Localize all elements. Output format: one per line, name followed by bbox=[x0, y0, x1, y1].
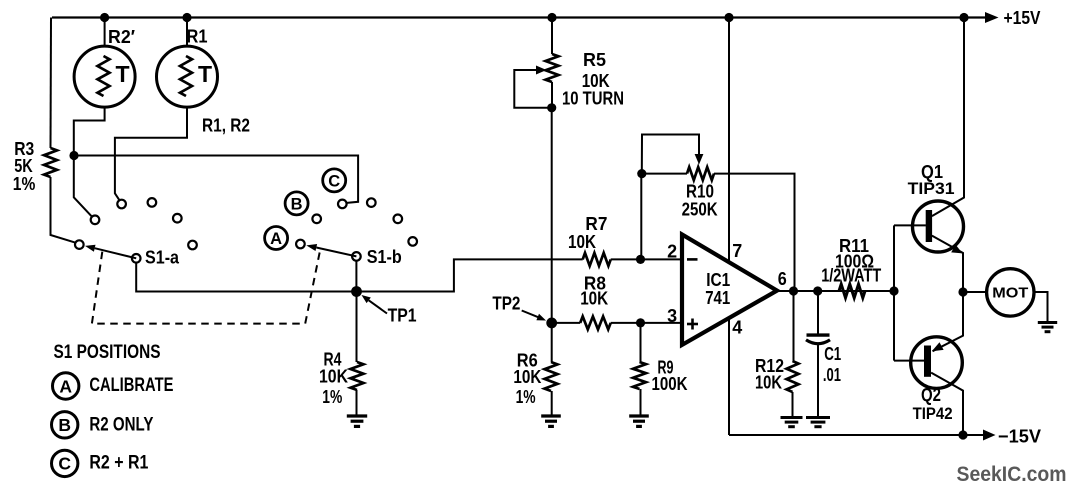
svg-text:1/2WATT: 1/2WATT bbox=[821, 265, 882, 286]
node legend circle A bbox=[52, 373, 78, 399]
ground C1 bbox=[806, 416, 830, 419]
node output junction C1 bbox=[813, 286, 822, 295]
svg-text:1%: 1% bbox=[516, 386, 536, 407]
svg-text:Q2: Q2 bbox=[921, 384, 941, 405]
wire S1-b pole down to TP1 bbox=[355, 261, 357, 292]
resistor R8 bbox=[552, 273, 682, 330]
potentiometer R10 bbox=[637, 135, 794, 292]
svg-text:−15V: −15V bbox=[998, 426, 1042, 447]
potentiometer R5 bbox=[514, 18, 624, 113]
svg-text:250K: 250K bbox=[682, 199, 719, 220]
wire bridge junction to S1-b contact C bbox=[74, 156, 358, 203]
thermistor R1 bbox=[115, 18, 218, 201]
svg-text:741: 741 bbox=[705, 287, 730, 308]
node junction top rail R1 bbox=[182, 13, 191, 22]
resistor R4 bbox=[319, 292, 364, 417]
wire left rail from +15V to R3 bbox=[50, 18, 53, 149]
svg-text:2: 2 bbox=[667, 241, 677, 262]
node motor junction bbox=[958, 287, 967, 296]
wire op-amp output bbox=[777, 290, 894, 292]
ground R6 bbox=[541, 414, 561, 417]
wire +15V top rail bbox=[52, 16, 985, 18]
svg-text:A: A bbox=[59, 376, 72, 396]
transistor Q1 TIP31 bbox=[894, 18, 964, 292]
wire R10 junction down to pin2 node bbox=[640, 174, 642, 260]
resistor R11 bbox=[821, 235, 882, 298]
node legend circle C bbox=[51, 450, 77, 476]
svg-text:T: T bbox=[198, 61, 212, 87]
node junction R2/R3 bridge bbox=[69, 151, 78, 160]
wire dashed gang link S1 bbox=[92, 252, 320, 324]
svg-text:10K: 10K bbox=[568, 231, 597, 252]
ground R4 bbox=[347, 414, 367, 417]
wire pin7 to +15V bbox=[728, 18, 730, 264]
svg-text:B: B bbox=[58, 415, 71, 435]
svg-text:R5: R5 bbox=[583, 49, 606, 70]
svg-text:10 TURN: 10 TURN bbox=[562, 88, 624, 109]
svg-text:1%: 1% bbox=[13, 173, 36, 194]
svg-text:10K: 10K bbox=[755, 372, 782, 393]
svg-text:100K: 100K bbox=[652, 373, 689, 394]
node circled C position label bbox=[323, 169, 346, 192]
svg-text:10K: 10K bbox=[319, 366, 349, 387]
svg-text:R2′: R2′ bbox=[108, 26, 136, 47]
node junction top rail pin7 bbox=[724, 13, 733, 22]
svg-text:TP1: TP1 bbox=[388, 305, 417, 326]
node pin3 junction bbox=[636, 318, 645, 327]
svg-text:TIP31: TIP31 bbox=[908, 179, 955, 198]
wire pin4 to -15V bbox=[728, 318, 730, 435]
wire R5 down to TP2 bbox=[551, 108, 553, 323]
svg-text:TIP42: TIP42 bbox=[913, 404, 953, 423]
node junction top rail Q1 bbox=[959, 13, 968, 22]
resistor R12 bbox=[755, 291, 799, 418]
svg-text:A: A bbox=[270, 230, 282, 248]
svg-text:4: 4 bbox=[732, 317, 743, 338]
node TP2 bbox=[546, 318, 557, 329]
resistor R7 bbox=[568, 213, 682, 266]
node output junction R12 bbox=[789, 286, 798, 295]
node base drive junction bbox=[889, 286, 898, 295]
svg-text:SeekIC.com: SeekIC.com bbox=[957, 462, 1067, 486]
node +15V arrow bbox=[985, 12, 999, 23]
svg-text:+15V: +15V bbox=[1004, 7, 1042, 28]
svg-text:R2 ONLY: R2 ONLY bbox=[89, 415, 153, 436]
svg-text:R1, R2: R1, R2 bbox=[202, 115, 250, 136]
op-amp IC1 741 bbox=[667, 234, 787, 345]
switch S1-b bbox=[296, 198, 417, 267]
ground R12 bbox=[781, 416, 803, 419]
svg-text:R1: R1 bbox=[187, 26, 208, 47]
svg-text:C1: C1 bbox=[824, 343, 841, 364]
node junction top rail R5 bbox=[547, 13, 556, 22]
wire -15V bottom rail bbox=[729, 434, 984, 436]
svg-text:C: C bbox=[58, 454, 71, 474]
wire S1-a pole down to bus bbox=[136, 263, 356, 292]
resistor R3 bbox=[13, 138, 76, 243]
ground MOT bbox=[1038, 321, 1057, 324]
legend S1 positions bbox=[54, 342, 161, 363]
svg-text:6: 6 bbox=[778, 268, 787, 289]
node junction top rail R2 bbox=[100, 13, 109, 22]
switch S1-a bbox=[75, 198, 197, 267]
svg-text:10K: 10K bbox=[580, 288, 609, 309]
node pin2 junction bbox=[636, 255, 645, 264]
svg-text:B: B bbox=[291, 195, 303, 213]
node legend circle B bbox=[51, 412, 77, 438]
resistor R6 bbox=[513, 323, 557, 416]
node circled B position label bbox=[285, 192, 308, 215]
transistor Q2 TIP42 bbox=[894, 291, 963, 435]
wire bus TP1 to R7 bbox=[357, 259, 583, 291]
svg-text:T: T bbox=[116, 61, 130, 87]
node circled A position label bbox=[265, 227, 288, 250]
svg-text:R2 + R1: R2 + R1 bbox=[89, 453, 148, 474]
capacitor C1 bbox=[806, 291, 841, 418]
svg-text:S1 POSITIONS: S1 POSITIONS bbox=[54, 342, 161, 363]
svg-text:3: 3 bbox=[667, 305, 677, 326]
wire bridge junction to S1-a contact B bbox=[74, 156, 92, 217]
node junction bottom rail Q2 bbox=[958, 430, 967, 439]
node TP1 bbox=[351, 286, 362, 297]
svg-text:.01: .01 bbox=[823, 364, 841, 385]
svg-text:7: 7 bbox=[732, 240, 742, 261]
svg-text:CALIBRATE: CALIBRATE bbox=[89, 375, 173, 396]
svg-text:C: C bbox=[328, 172, 340, 190]
resistor R9 bbox=[633, 323, 688, 416]
svg-text:TP2: TP2 bbox=[492, 293, 520, 314]
ground R9 bbox=[629, 414, 649, 417]
motor MOT bbox=[963, 269, 1048, 322]
svg-text:1%: 1% bbox=[322, 386, 342, 407]
svg-text:MOT: MOT bbox=[992, 285, 1028, 302]
thermistor R2 bbox=[74, 18, 136, 153]
node -15V arrow bbox=[983, 430, 996, 441]
svg-text:S1-a: S1-a bbox=[145, 247, 180, 268]
svg-text:S1-b: S1-b bbox=[367, 246, 402, 267]
svg-text:10K: 10K bbox=[513, 366, 542, 387]
